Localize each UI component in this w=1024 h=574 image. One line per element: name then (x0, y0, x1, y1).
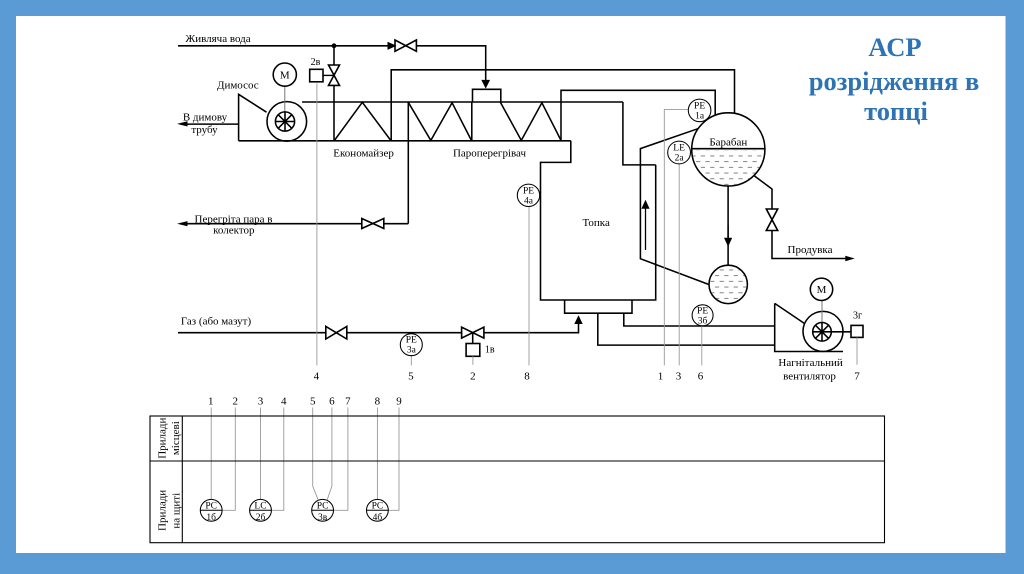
svg-text:2б: 2б (256, 512, 266, 523)
svg-text:3в: 3в (318, 513, 328, 523)
svg-text:Живляча вода: Живляча вода (185, 33, 250, 45)
svg-text:1а: 1а (695, 111, 705, 121)
svg-text:Димосос: Димосос (217, 80, 259, 92)
svg-text:8: 8 (375, 396, 381, 408)
svg-text:1в: 1в (485, 345, 495, 356)
svg-text:7: 7 (854, 370, 860, 382)
svg-text:Барабан: Барабан (709, 136, 747, 148)
svg-text:Прилади: Прилади (157, 417, 169, 458)
svg-text:Топка: Топка (583, 217, 610, 229)
svg-text:3а: 3а (407, 346, 417, 356)
svg-text:8: 8 (524, 370, 530, 382)
svg-text:6: 6 (329, 396, 335, 408)
svg-text:М: М (817, 284, 827, 296)
svg-text:В димову: В димову (183, 111, 228, 123)
svg-text:розрідження в: розрідження в (809, 66, 980, 96)
svg-text:місцеві: місцеві (170, 421, 182, 455)
svg-text:3: 3 (676, 370, 682, 382)
svg-text:4б: 4б (373, 512, 383, 523)
svg-text:Нагнітальний: Нагнітальний (778, 357, 842, 369)
svg-text:Газ (або мазут): Газ (або мазут) (181, 316, 252, 328)
svg-text:на щиті: на щиті (171, 493, 183, 529)
svg-text:5: 5 (408, 370, 414, 382)
svg-text:3г: 3г (853, 310, 862, 321)
svg-text:LE: LE (673, 144, 685, 154)
svg-text:PC: PC (372, 501, 384, 511)
svg-text:Прилади: Прилади (157, 490, 169, 531)
svg-text:трубу: трубу (191, 124, 218, 136)
svg-text:1: 1 (658, 370, 664, 382)
svg-text:2: 2 (470, 370, 476, 382)
svg-text:АСР: АСР (868, 32, 921, 62)
svg-text:PE: PE (697, 306, 708, 316)
svg-text:вентилятор: вентилятор (783, 370, 836, 382)
svg-text:2: 2 (233, 396, 239, 408)
svg-text:5: 5 (310, 396, 316, 408)
svg-text:3б: 3б (698, 315, 708, 326)
svg-text:2а: 2а (675, 154, 685, 164)
svg-text:Продувка: Продувка (788, 244, 833, 256)
svg-text:топці: топці (864, 96, 928, 126)
svg-text:4: 4 (314, 370, 320, 382)
svg-text:PE: PE (406, 336, 417, 346)
svg-text:4а: 4а (524, 196, 534, 206)
svg-text:1: 1 (208, 396, 214, 408)
svg-text:М: М (280, 69, 290, 81)
svg-text:2в: 2в (311, 57, 321, 68)
svg-text:3: 3 (258, 396, 264, 408)
svg-text:PC: PC (205, 501, 217, 511)
svg-text:LC: LC (254, 501, 266, 511)
svg-text:PC: PC (317, 501, 329, 511)
svg-text:7: 7 (345, 396, 351, 408)
svg-text:Пароперегрівач: Пароперегрівач (453, 148, 527, 160)
svg-text:9: 9 (396, 396, 402, 408)
svg-text:PE: PE (523, 186, 534, 196)
svg-text:1б: 1б (206, 512, 216, 523)
svg-text:PE: PE (694, 101, 705, 111)
svg-text:4: 4 (281, 396, 287, 408)
svg-text:Економайзер: Економайзер (333, 148, 394, 160)
svg-text:колектор: колектор (213, 225, 255, 237)
svg-text:6: 6 (698, 370, 704, 382)
